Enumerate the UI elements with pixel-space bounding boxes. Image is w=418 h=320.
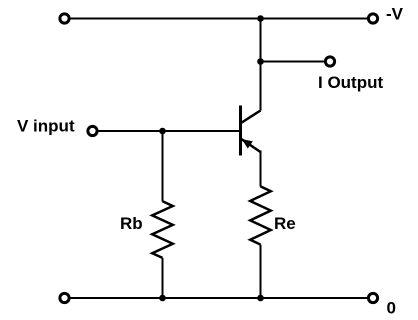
wire top rail (-V rail) bbox=[65, 18, 374, 20]
resistor Rb bbox=[152, 201, 173, 258]
svg-text:V input: V input bbox=[17, 117, 75, 136]
wire bottom rail (0 rail) bbox=[65, 297, 374, 299]
wire Rb top (node to resistor) bbox=[162, 131, 164, 202]
svg-text:I Output: I Output bbox=[318, 73, 383, 92]
terminal -V rail right bbox=[368, 14, 377, 23]
transistor Q1 (PNP) bbox=[241, 106, 261, 156]
wire emitter vertical to Re bbox=[260, 151, 262, 187]
svg-text:0: 0 bbox=[387, 299, 396, 318]
svg-text:Rb: Rb bbox=[120, 214, 143, 233]
wire collector vertical from -V rail to transistor bbox=[260, 19, 262, 111]
node junction at -V rail / collector bbox=[257, 15, 264, 22]
terminal I Output bbox=[325, 57, 334, 66]
node junction at Rb / 0 rail bbox=[159, 295, 166, 302]
wire Re bottom (resistor to 0 rail) bbox=[260, 245, 262, 298]
resistor Re bbox=[250, 186, 271, 244]
svg-text:-V: -V bbox=[386, 5, 404, 24]
terminal 0 rail right bbox=[368, 293, 377, 302]
wire I Output branch bbox=[261, 61, 331, 63]
node junction at base / Rb bbox=[159, 128, 166, 135]
node junction at Re / 0 rail bbox=[257, 295, 264, 302]
terminal V input bbox=[88, 126, 97, 135]
wire Rb bottom (resistor to 0 rail) bbox=[162, 258, 164, 298]
terminal 0 rail left bbox=[60, 293, 69, 302]
wire base lead from V input bbox=[93, 130, 240, 132]
terminal -V rail left bbox=[60, 14, 69, 23]
node junction at I Output tap bbox=[257, 58, 264, 65]
svg-text:Re: Re bbox=[274, 214, 296, 233]
